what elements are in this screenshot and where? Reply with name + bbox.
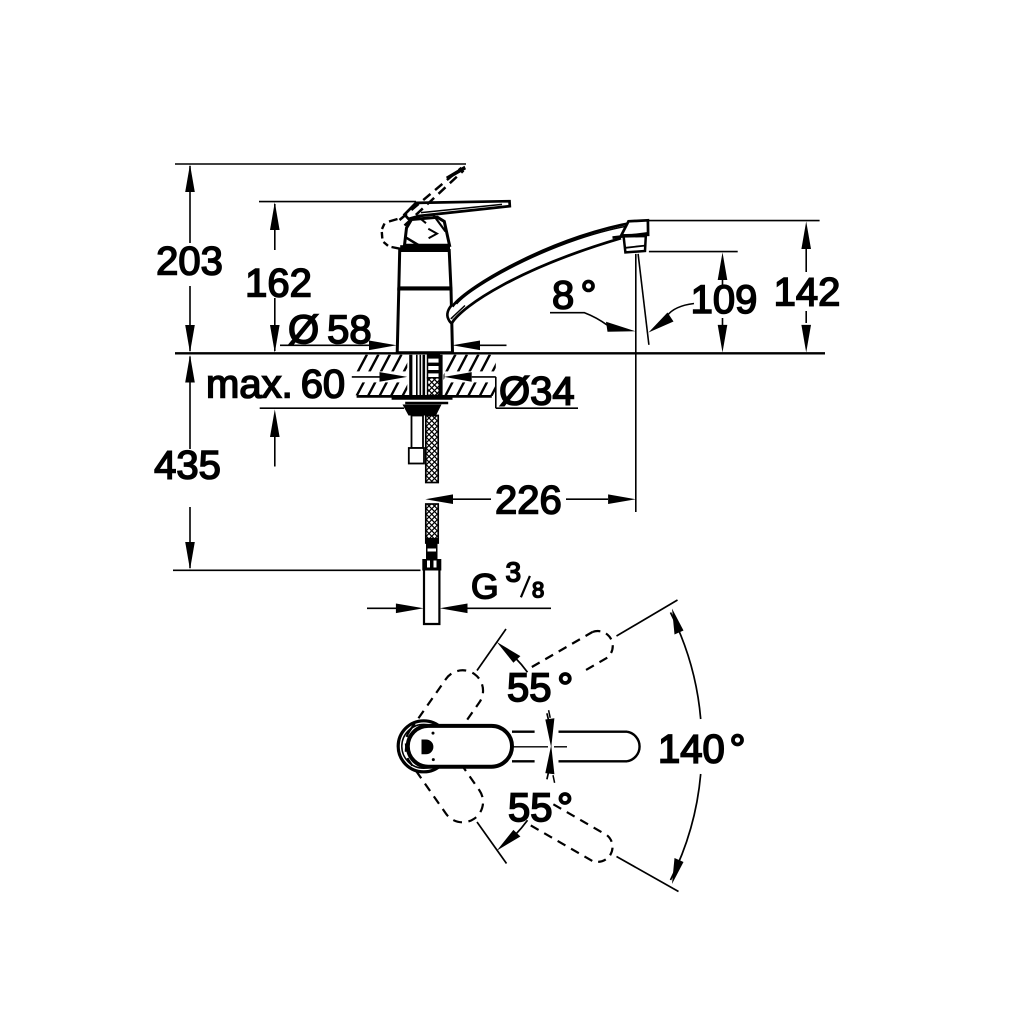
dimension 226 horizontal — [425, 494, 453, 504]
dashed dome outline (raised position) — [382, 219, 401, 249]
handle D mark — [422, 740, 434, 755]
svg-text:3: 3 — [506, 557, 522, 588]
55 upper arc stub above arrow — [549, 710, 551, 718]
handle dot lower — [432, 758, 435, 761]
svg-text:°: ° — [581, 274, 597, 318]
svg-text:142: 142 — [774, 271, 841, 315]
dashed raised lever edge 2 — [405, 171, 464, 226]
55 upper arc segment b — [547, 713, 551, 737]
escutcheon inner circle — [402, 724, 446, 768]
PLAN VIEW GROUP — [398, 600, 746, 892]
55 lower rotation line — [477, 822, 507, 864]
faucet mid body — [399, 251, 451, 290]
countertop top line — [175, 352, 825, 354]
140 arc upper segment — [671, 613, 701, 720]
hatch interruption band left — [351, 371, 407, 382]
lever blade inner line — [421, 204, 502, 212]
arrow up 162 top — [270, 202, 280, 230]
dome inner diagonal line — [433, 215, 446, 232]
small mark slash in dome — [419, 217, 427, 223]
spout plan bottom edge — [512, 760, 535, 762]
dashed handle rotated +55 (upper left) — [398, 662, 491, 771]
arrow up 203 top — [185, 164, 195, 192]
mounting flange line 2 — [405, 402, 448, 404]
dimension 162 vertical line — [274, 204, 276, 250]
svg-text:109: 109 — [691, 278, 758, 322]
aerator block — [624, 236, 646, 252]
svg-text:435: 435 — [154, 443, 221, 487]
Ø58 leader line with right-pointing arrow — [280, 344, 372, 346]
55 lower arc segment b — [547, 755, 551, 779]
spout elbow inner line — [451, 306, 465, 319]
svg-text:Ø34: Ø34 — [499, 370, 575, 414]
svg-text:203: 203 — [156, 240, 223, 284]
spout head underside line — [613, 233, 648, 237]
body mid joint line — [400, 286, 452, 290]
svg-text:226: 226 — [495, 479, 562, 523]
140 arc arrowhead bottom — [672, 858, 684, 884]
svg-text:55: 55 — [508, 786, 553, 830]
lever blade horizontal — [405, 201, 510, 219]
solid raised lever tip — [446, 166, 466, 180]
hatch interruption band right — [445, 371, 496, 382]
spout bottom curve — [452, 238, 621, 323]
handle dot upper — [432, 732, 435, 735]
extension line 109 — [649, 251, 738, 253]
spout centerline — [512, 746, 548, 748]
max60 up arrow below lower reference — [270, 409, 280, 437]
max60 lower reference line (under label to flange) — [260, 407, 404, 409]
spout inner highlight line — [457, 225, 637, 304]
shank right edge — [439, 355, 442, 396]
clamp wedge black — [403, 405, 442, 416]
55 upper rotation line — [477, 629, 506, 671]
dome upper body — [405, 217, 450, 245]
spout plan right cap — [627, 732, 640, 762]
faucet base body — [397, 289, 452, 353]
8° leader arc with arrow — [550, 313, 607, 325]
small chevron mark in dome — [428, 229, 437, 239]
dimension 203 vertical line — [189, 166, 191, 243]
escutcheon outer circle — [398, 721, 449, 772]
spout top curve — [452, 221, 642, 306]
svg-text:8: 8 — [532, 578, 544, 603]
braided hose lower segment — [426, 504, 438, 543]
G3/8 nut — [422, 559, 441, 571]
svg-text:8: 8 — [552, 274, 574, 318]
vertical reference line below spout outlet — [635, 254, 637, 512]
Ø34 arrows at counter hole — [352, 376, 380, 378]
dimension 142 vertical — [801, 221, 811, 249]
mounting stud rod — [412, 416, 424, 449]
svg-text:140: 140 — [658, 728, 725, 772]
140 arc arrowhead top — [672, 609, 684, 635]
dimension 109 vertical — [718, 252, 728, 280]
55 lower arc arrowhead at center — [545, 745, 554, 774]
SIDE VIEW GROUP — [154, 164, 840, 624]
55 upper arc arrowhead at center — [545, 718, 554, 747]
extension line 162 upper reference — [259, 201, 416, 203]
spout elbow white mask — [447, 303, 453, 323]
140 radius line upper — [617, 600, 678, 636]
connector tube end — [424, 571, 439, 625]
svg-text:°: ° — [557, 786, 573, 830]
G 3/8 dimension arrows — [367, 607, 396, 609]
55 lower arc stub below arrow — [553, 775, 555, 783]
140 arc lower segment — [671, 774, 701, 880]
55 upper arc segment a — [515, 657, 528, 672]
arrow down 203 bottom — [185, 325, 195, 353]
arrow down 435 bottom — [185, 542, 195, 570]
threaded stud column — [428, 355, 440, 378]
dimension 435 vertical line — [189, 357, 191, 450]
shank in counter hole: left stripes — [409, 355, 412, 396]
dashed spout rotated +30 (upper right) — [532, 626, 618, 693]
cartridge ring black band — [400, 245, 450, 251]
140 radius line lower — [617, 857, 679, 892]
handle plan rounded rect — [408, 726, 512, 767]
hose ferrule — [426, 538, 438, 559]
spout head cap — [621, 220, 648, 235]
svg-text:55: 55 — [507, 666, 552, 710]
arrow down 162 bottom — [270, 325, 280, 353]
extension line 142 top — [648, 220, 820, 222]
55 upper arc arrowhead at line end — [497, 642, 521, 663]
spout plan top edge — [512, 731, 535, 733]
extension line top (203 upper reference) — [175, 163, 466, 165]
braided hose upper segment — [426, 416, 438, 483]
mounting flange line 1 — [392, 397, 453, 400]
stud end block — [409, 448, 424, 464]
spout elbow outline — [447, 305, 452, 324]
svg-text:°: ° — [730, 728, 746, 772]
Ø58 right arrow — [452, 341, 480, 351]
diagonal strut in dome — [406, 238, 423, 248]
55 lower arc arrowhead at line end — [497, 830, 521, 851]
109 leader arc with arrow — [667, 304, 694, 317]
svg-text:max. 60: max. 60 — [206, 363, 345, 407]
dashed handle rotated -55 (lower left) — [398, 722, 491, 831]
55 lower arc segment a — [515, 820, 528, 835]
svg-text:G: G — [471, 567, 499, 607]
svg-text:°: ° — [557, 666, 573, 710]
dashed spout rotated -30 (lower right) — [531, 800, 618, 867]
extension line 435 bottom — [173, 569, 421, 571]
dashed raised lever edge 1 — [400, 168, 462, 220]
aerator ring line — [625, 246, 645, 248]
arrow up 435 top — [185, 355, 195, 383]
svg-text:162: 162 — [245, 262, 312, 306]
countertop bottom line — [357, 395, 492, 398]
8 degree tilted stream line — [638, 254, 649, 345]
Ø34 label leader box — [495, 377, 497, 408]
